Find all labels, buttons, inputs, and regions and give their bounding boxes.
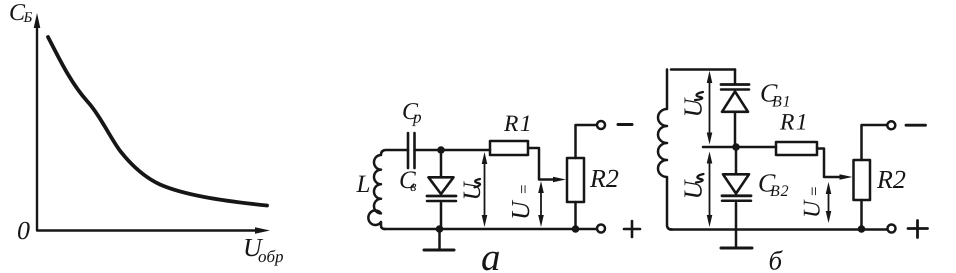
label U= b (804, 187, 820, 216)
wiper arrowhead b (840, 174, 853, 180)
wire R2 top to minus terminal a (576, 125, 597, 158)
terminal plus a (597, 225, 605, 233)
label U~ a (464, 181, 481, 198)
wiper arrowhead a (553, 177, 566, 183)
top wire b (671, 68, 735, 71)
ground node dot a (436, 225, 444, 233)
varicap CB2 bar2 (722, 200, 751, 203)
terminal minus a (597, 121, 605, 129)
varicap CB1 bar2 (721, 88, 749, 91)
arrow U~ upper b (707, 71, 713, 145)
resistor R1 a (490, 141, 528, 155)
potentiometer R2 b (854, 160, 871, 200)
varicap CB1 triangle (722, 92, 748, 112)
middle wire b (703, 146, 776, 149)
arrow U~ lower b (707, 152, 713, 228)
varicap CB triangle (429, 177, 454, 194)
label CB1 (761, 84, 788, 106)
wire R2 bottom b (860, 200, 863, 230)
label R2 b (877, 171, 905, 188)
node dot R2 bottom b (858, 225, 866, 233)
potentiometer R2 a (567, 158, 584, 202)
label U~ upper b (685, 97, 702, 115)
plus sign b (908, 221, 928, 238)
bottom wire a (384, 228, 597, 231)
arrow U~ a (482, 152, 488, 227)
arrow U= a (538, 181, 544, 227)
wire R2 top to minus terminal b (862, 125, 887, 160)
label CB2 (759, 174, 788, 196)
node junction dot a (437, 146, 445, 154)
arrow U= b (826, 182, 832, 223)
capacitor Cp plate left (407, 133, 410, 168)
varicap CB cathode wire (440, 203, 443, 229)
x-axis (37, 227, 270, 233)
label Cp (403, 103, 421, 126)
varicap CB1 top wire (734, 70, 737, 84)
capacitor Cp plate right (413, 133, 416, 168)
varicap CB2 triangle (723, 174, 749, 193)
ground b (721, 230, 752, 249)
wire R1 to wiper b (817, 149, 840, 178)
varicap CB2 bar1 (722, 194, 751, 197)
plus sign a (624, 221, 640, 237)
varicap CB bar1 (427, 195, 456, 198)
label a (482, 252, 499, 271)
node junction dot b (732, 143, 740, 151)
resistor R1 b (776, 142, 817, 155)
label b (770, 250, 783, 270)
wire R1 to wiper a (528, 148, 553, 180)
varicap CB2 bottom wire (735, 203, 738, 230)
wire cap to R1 (415, 149, 491, 152)
label R2 a (590, 170, 618, 187)
label R1 b (780, 114, 805, 130)
varicap CB1 bar1 (721, 83, 749, 86)
y-axis (34, 13, 41, 230)
varicap CB anode wire (440, 150, 443, 177)
label L (356, 176, 369, 192)
inductor b (658, 70, 672, 230)
minus sign a (618, 123, 632, 126)
bottom wire b (670, 228, 887, 231)
varicap CB2 top wire (735, 147, 738, 174)
node dot R2 bottom a (572, 225, 580, 233)
label R1 a (504, 116, 529, 132)
terminal plus b (888, 225, 896, 233)
ground a (424, 229, 454, 250)
origin 0 (18, 222, 30, 240)
capacitance curve (48, 37, 267, 206)
label CB (400, 171, 416, 191)
varicap CB1 bottom wire (734, 112, 737, 147)
inductor L (368, 150, 408, 229)
axis label Uобр (245, 239, 283, 266)
minus sign b (906, 124, 926, 127)
terminal minus b (887, 121, 895, 129)
axis label CБ (10, 4, 32, 22)
label U~ lower b (685, 179, 702, 197)
label U= a (512, 185, 529, 217)
varicap CB bar2 (427, 200, 456, 203)
wire R2 bottom a (574, 202, 577, 229)
